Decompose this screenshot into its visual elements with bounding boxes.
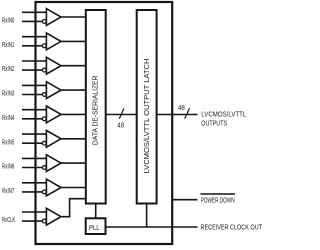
- block U3 PLL: [86, 218, 106, 234]
- wire de-serializer to PLL: [95, 204, 97, 219]
- svg-text:DATA DE-SERIALIZER: DATA DE-SERIALIZER: [93, 76, 100, 146]
- wire RxIN1+: [22, 36, 47, 38]
- inverting bubble A0: [42, 20, 46, 24]
- op-amp buffer A5: [46, 130, 61, 147]
- svg-text:RxIN3: RxIN3: [2, 91, 14, 98]
- svg-text:RxIN2: RxIN2: [2, 66, 14, 73]
- wire RxCLK-: [22, 220, 42, 222]
- wire RxCLK+: [22, 211, 47, 213]
- svg-text:48: 48: [117, 123, 124, 130]
- wire A5 output: [61, 138, 86, 140]
- wire RxIN7-: [22, 191, 42, 193]
- wire RxIN6+: [22, 157, 47, 159]
- op-amp buffer A2: [46, 57, 61, 74]
- wire RxIN5+: [22, 133, 47, 135]
- wire RxIN2+: [22, 60, 47, 62]
- svg-text:RxIN0: RxIN0: [2, 18, 14, 25]
- wire clock to latch: [146, 204, 148, 228]
- op-amp buffer A1: [46, 33, 61, 50]
- wire RxIN4-: [22, 118, 42, 120]
- svg-text:RECEIVER CLOCK OUT: RECEIVER CLOCK OUT: [201, 225, 263, 232]
- wire RxIN3-: [22, 94, 42, 96]
- wire A6 output: [61, 162, 86, 164]
- inverting bubble A5: [42, 141, 46, 145]
- wire RxIN1-: [22, 45, 42, 47]
- outer block boundary box: [36, 2, 173, 244]
- wire PLL to RECEIVER CLOCK OUT: [106, 226, 198, 228]
- inverting bubble A8 clock buffer: [42, 219, 46, 223]
- wire RxIN0+: [22, 11, 47, 13]
- wire 48-bit bus de-serializer to latch: [106, 114, 137, 116]
- wire RxIN4+: [22, 109, 47, 111]
- inverting bubble A7: [42, 190, 46, 194]
- inverting bubble A1: [42, 44, 46, 48]
- svg-text:48: 48: [178, 105, 185, 112]
- svg-text:RxIN4: RxIN4: [2, 115, 14, 122]
- wire RxIN6-: [22, 167, 42, 169]
- svg-text:RxCLK: RxCLK: [2, 217, 15, 224]
- block U2 LVCMOS/LVTTL OUTPUT LATCH: [137, 10, 157, 204]
- wire A3 output: [61, 89, 86, 91]
- op-amp buffer A6: [46, 155, 61, 172]
- svg-text:POWER DOWN: POWER DOWN: [201, 197, 235, 204]
- svg-text:RxIN7: RxIN7: [2, 188, 14, 195]
- wire A2 output: [61, 65, 86, 67]
- bus width slash external: [185, 108, 190, 118]
- svg-text:PLL: PLL: [89, 225, 100, 232]
- wire A4 output: [61, 113, 86, 115]
- op-amp buffer A4: [46, 106, 61, 123]
- svg-text:RxIN5: RxIN5: [2, 139, 14, 146]
- wire RxIN5-: [22, 142, 42, 144]
- overline for POWER DOWN (active low): [200, 193, 235, 195]
- wire POWER DOWN: [172, 199, 197, 201]
- op-amp buffer A7: [46, 179, 61, 196]
- wire 48-bit output bus to LVCMOS/LVTTL outputs: [157, 114, 198, 116]
- inverting bubble A3: [42, 93, 46, 97]
- svg-text:LVCMOS/LVTTL: LVCMOS/LVTTL: [201, 112, 246, 119]
- inverting bubble A6: [42, 166, 46, 170]
- op-amp clock buffer A8: [46, 208, 61, 225]
- svg-text:LVCMOS/LVTTL OUTPUT LATCH: LVCMOS/LVTTL OUTPUT LATCH: [144, 58, 151, 173]
- wire RxIN0-: [22, 20, 42, 22]
- svg-text:RxIN1: RxIN1: [2, 42, 14, 49]
- op-amp buffer A0: [46, 9, 61, 26]
- wire RxIN7+: [22, 182, 47, 184]
- op-amp buffer A3: [46, 82, 61, 99]
- inverting bubble A2: [42, 68, 46, 72]
- inverting bubble A4: [42, 117, 46, 121]
- wire clock buffer output to de-serializer: [61, 199, 86, 217]
- wire A7 output: [61, 187, 86, 189]
- wire RxIN3+: [22, 84, 47, 86]
- svg-text:OUTPUTS: OUTPUTS: [201, 120, 227, 127]
- wire A0 output: [61, 16, 86, 18]
- bus width slash internal: [119, 108, 124, 118]
- wire A1 output: [61, 40, 86, 42]
- svg-text:RxIN6: RxIN6: [2, 164, 14, 171]
- block U1 DATA DE-SERIALIZER: [86, 10, 106, 204]
- wire RxIN2-: [22, 69, 42, 71]
